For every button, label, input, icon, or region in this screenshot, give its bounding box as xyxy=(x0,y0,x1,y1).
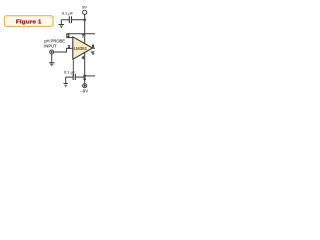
capacitor C2 0.1uF xyxy=(73,74,75,80)
feedback wire xyxy=(67,34,95,38)
bottom rail to vee xyxy=(85,75,95,77)
svg-text:INPUT: INPUT xyxy=(44,44,57,49)
top rail wire xyxy=(61,19,84,21)
junction dot bottom 2 xyxy=(83,78,86,81)
svg-text:Figure 1: Figure 1 xyxy=(16,19,42,25)
svg-text:pH PROBE: pH PROBE xyxy=(44,39,65,44)
input terminal xyxy=(50,50,54,54)
svg-text:9V: 9V xyxy=(82,5,87,10)
output wire pin 6 xyxy=(92,47,95,49)
svg-text:6: 6 xyxy=(92,43,95,48)
svg-text:−9V: −9V xyxy=(80,89,88,94)
wire opamp corner to bottom rail xyxy=(72,60,74,78)
wire 9V to rail xyxy=(84,14,86,19)
svg-text:5: 5 xyxy=(92,51,95,56)
9V terminal xyxy=(83,10,87,14)
figure label box xyxy=(4,16,53,27)
svg-text:0.1 μF: 0.1 μF xyxy=(62,11,74,16)
-9V terminal xyxy=(83,84,87,88)
input wire to pin 3 xyxy=(54,48,73,52)
V+ supply wire to pin 7 xyxy=(84,20,86,44)
V- supply wire pin 4 xyxy=(84,52,86,83)
op-amp U1 LM351 xyxy=(73,37,93,60)
svg-text:LM351: LM351 xyxy=(74,46,88,51)
junction dot top xyxy=(83,19,86,22)
svg-text:0.1 μF: 0.1 μF xyxy=(64,70,76,75)
junction dot bottom 1 xyxy=(83,75,86,78)
ground G1 xyxy=(60,20,62,25)
bottom rail wire xyxy=(66,76,85,78)
ground G2 under input terminal xyxy=(51,54,53,63)
ground G3 xyxy=(65,77,67,83)
capacitor C1 0.1uF xyxy=(69,16,71,23)
pin 5 stub xyxy=(90,51,92,54)
